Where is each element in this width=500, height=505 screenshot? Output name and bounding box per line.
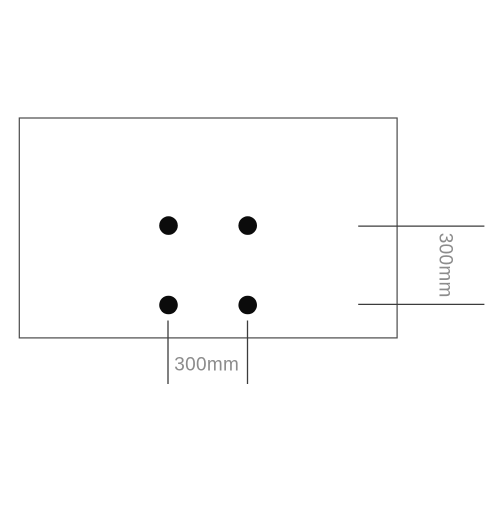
- hole bottom-left: [159, 296, 178, 315]
- extension line top (right of top hole row): [358, 225, 484, 227]
- hole top-right: [238, 216, 257, 235]
- extension line left (below bottom-left hole): [167, 321, 169, 385]
- mounting plate outline: [19, 118, 397, 338]
- svg-text:300mm: 300mm: [434, 233, 455, 298]
- svg-text:300mm: 300mm: [174, 355, 239, 376]
- extension line right (below bottom-right hole): [247, 321, 249, 385]
- extension line bottom (right of bottom hole row): [358, 303, 484, 305]
- hole top-left: [159, 216, 178, 235]
- hole bottom-right: [238, 296, 257, 315]
